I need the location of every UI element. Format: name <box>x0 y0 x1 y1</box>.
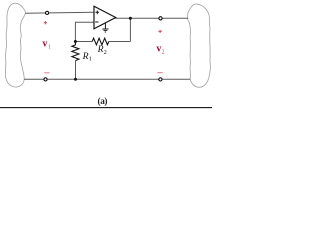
terminal bottom-left <box>44 78 47 81</box>
svg-text:(a): (a) <box>98 96 108 106</box>
wire feedback left riser <box>74 22 76 42</box>
load blob right (hand-drawn network boundary) <box>188 4 211 87</box>
svg-text:1: 1 <box>48 45 51 51</box>
resistor R1 (vertical zigzag) <box>72 42 79 61</box>
svg-text:2: 2 <box>104 49 107 56</box>
source blob left (hand-drawn network boundary) <box>5 3 25 87</box>
svg-text:R: R <box>97 44 104 55</box>
svg-text:v: v <box>42 39 47 50</box>
wire R2 left lead <box>75 41 92 43</box>
wire feedback right riser <box>129 18 131 41</box>
terminal top-right <box>159 17 162 20</box>
node junction bottom rail <box>74 78 77 81</box>
polarity minus v2 <box>158 72 163 74</box>
node junction at R1/R2 <box>74 40 77 43</box>
resistor R2 (horizontal zigzag) <box>92 38 109 45</box>
op-amp U1 triangle <box>94 6 116 29</box>
op-amp - input mark <box>95 21 98 23</box>
wire R1 bottom lead <box>75 61 77 80</box>
op-amp + input mark <box>96 11 100 15</box>
svg-text:2: 2 <box>162 49 165 55</box>
svg-text:1: 1 <box>89 56 92 63</box>
wire R2 right lead <box>109 41 131 43</box>
wire bottom rail <box>24 78 190 80</box>
ground symbol <box>104 23 106 29</box>
terminal top-left <box>46 11 49 14</box>
polarity plus v1 <box>44 21 47 24</box>
terminal bottom-right <box>159 78 162 81</box>
wire top rail v1+ to op-amp + input <box>25 12 94 13</box>
polarity plus v2 <box>158 30 161 33</box>
page rule line <box>0 107 212 108</box>
polarity minus v1 <box>44 72 49 74</box>
wire output rail to v2+ <box>115 17 188 19</box>
wire inverting input stub <box>75 21 94 23</box>
node junction output <box>129 17 132 20</box>
svg-text:R: R <box>82 51 89 62</box>
